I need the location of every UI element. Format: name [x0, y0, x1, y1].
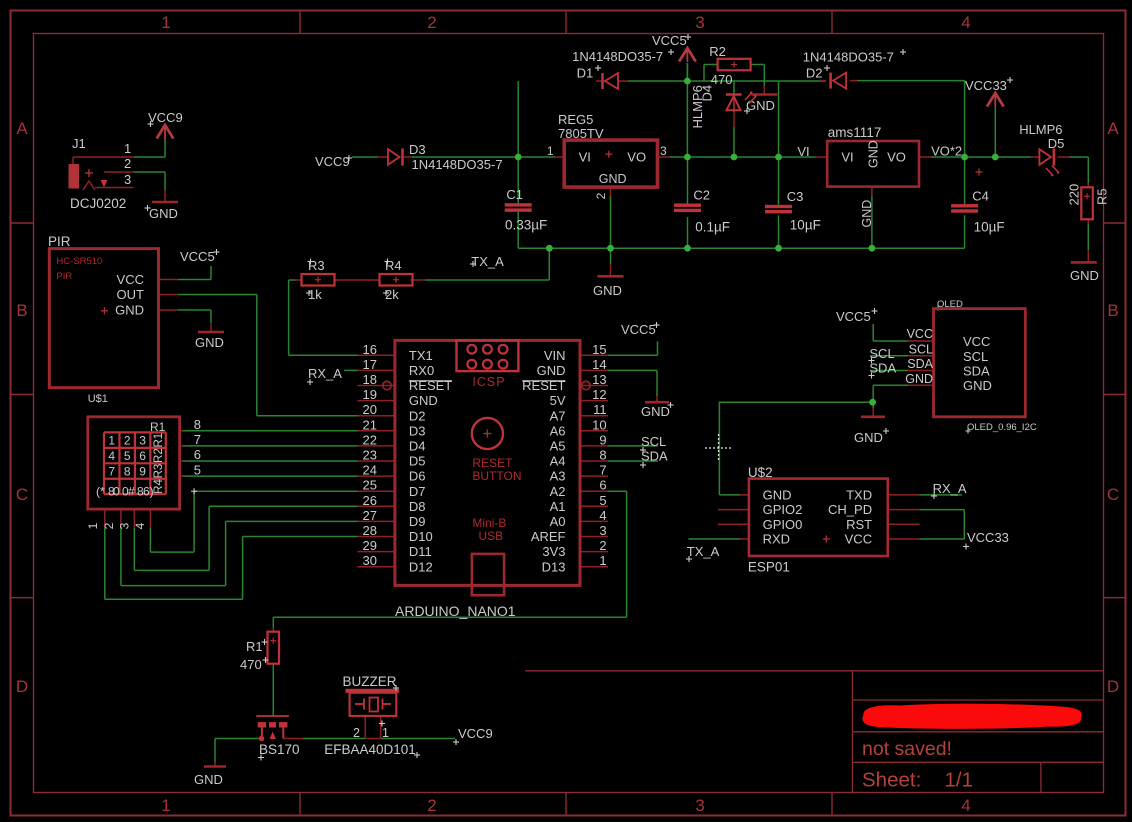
svg-text:RST: RST — [846, 517, 872, 532]
svg-text:TX_A: TX_A — [471, 254, 504, 269]
svg-text:GPIO2: GPIO2 — [763, 502, 803, 517]
svg-text:SCL: SCL — [641, 434, 666, 449]
svg-text:3: 3 — [695, 796, 704, 815]
svg-text:1: 1 — [382, 726, 389, 740]
svg-text:A2: A2 — [550, 484, 566, 499]
svg-text:VIN: VIN — [544, 348, 566, 363]
svg-text:2: 2 — [353, 726, 360, 740]
svg-text:2: 2 — [102, 522, 116, 529]
svg-text:13: 13 — [592, 372, 606, 387]
svg-text:SDA: SDA — [907, 357, 933, 371]
svg-text:R2: R2 — [153, 448, 165, 463]
svg-text:A0: A0 — [550, 514, 566, 529]
svg-text:OUT: OUT — [117, 287, 145, 302]
svg-text:0.1µF: 0.1µF — [695, 220, 730, 235]
svg-text:HC-SR510: HC-SR510 — [56, 256, 102, 267]
svg-text:VCC5: VCC5 — [621, 322, 656, 337]
svg-text:SCL: SCL — [963, 349, 988, 364]
svg-text:GPIO0: GPIO0 — [763, 517, 803, 532]
svg-text:20: 20 — [363, 402, 377, 417]
svg-text:28: 28 — [363, 523, 377, 538]
svg-text:6: 6 — [599, 478, 606, 493]
svg-text:AREF: AREF — [531, 529, 566, 544]
svg-text:USB: USB — [479, 529, 504, 543]
svg-text:BUTTON: BUTTON — [472, 469, 521, 483]
svg-text:C4: C4 — [972, 189, 989, 204]
svg-text:C3: C3 — [787, 189, 804, 204]
svg-text:4: 4 — [961, 13, 970, 32]
svg-text:RXD: RXD — [763, 532, 790, 547]
svg-text:R3: R3 — [153, 464, 165, 479]
svg-text:GND: GND — [763, 488, 792, 503]
svg-text:VCC5: VCC5 — [836, 309, 871, 324]
svg-text:VI: VI — [579, 150, 591, 165]
svg-text:R5: R5 — [1095, 188, 1110, 205]
svg-text:GND: GND — [115, 303, 144, 318]
svg-text:1: 1 — [547, 144, 554, 158]
svg-text:D7: D7 — [409, 484, 426, 499]
svg-text:470: 470 — [711, 72, 733, 87]
svg-text:GND: GND — [194, 772, 223, 787]
svg-text:D12: D12 — [409, 559, 433, 574]
svg-text:5: 5 — [124, 449, 131, 463]
svg-text:TXD: TXD — [846, 488, 872, 503]
svg-text:RX0: RX0 — [409, 363, 434, 378]
svg-text:A3: A3 — [550, 469, 566, 484]
svg-text:(*: (* — [96, 485, 105, 499]
svg-text:Sheet:: Sheet: — [862, 769, 921, 792]
svg-text:C2: C2 — [693, 188, 710, 203]
svg-text:18: 18 — [363, 372, 377, 387]
svg-text:D9: D9 — [409, 514, 426, 529]
svg-text:VO: VO — [887, 150, 906, 165]
svg-text:11: 11 — [593, 402, 607, 417]
svg-text:Mini-B: Mini-B — [472, 516, 506, 530]
svg-text:25: 25 — [363, 478, 377, 493]
svg-text:29: 29 — [363, 538, 377, 553]
svg-text:R2: R2 — [709, 44, 726, 59]
svg-text:4: 4 — [961, 796, 970, 815]
svg-text:BS170: BS170 — [259, 742, 300, 757]
svg-text:6: 6 — [194, 447, 201, 462]
svg-text:D3: D3 — [409, 142, 426, 157]
svg-text:1k: 1k — [308, 287, 322, 302]
svg-text:6: 6 — [139, 449, 146, 463]
svg-text:1: 1 — [108, 434, 115, 448]
svg-text:1N4148DO35-7: 1N4148DO35-7 — [412, 157, 503, 172]
svg-text:30: 30 — [363, 553, 377, 568]
svg-text:24: 24 — [363, 463, 377, 478]
svg-text:D6: D6 — [409, 469, 426, 484]
svg-text:3: 3 — [124, 172, 131, 187]
svg-text:4: 4 — [133, 522, 147, 529]
svg-text:SDA: SDA — [963, 364, 990, 379]
svg-text:GND: GND — [195, 335, 224, 350]
svg-text:3: 3 — [118, 522, 132, 529]
svg-text:D11: D11 — [409, 544, 432, 559]
svg-text:R4: R4 — [153, 479, 165, 494]
svg-text:A1: A1 — [550, 499, 566, 514]
svg-text:GND: GND — [854, 430, 883, 445]
svg-text:1: 1 — [161, 13, 170, 32]
svg-text:1: 1 — [161, 796, 170, 815]
svg-text:A4: A4 — [550, 454, 566, 469]
svg-text:not saved!: not saved! — [862, 738, 952, 760]
svg-text:#: # — [128, 485, 135, 499]
svg-text:GND: GND — [593, 283, 622, 298]
svg-text:23: 23 — [363, 448, 377, 463]
svg-text:2: 2 — [599, 538, 606, 553]
svg-text:GND: GND — [537, 363, 566, 378]
svg-text:RX_A: RX_A — [308, 366, 342, 381]
svg-text:GND: GND — [641, 404, 670, 419]
svg-text:D1: D1 — [577, 66, 594, 81]
svg-text:21: 21 — [363, 417, 377, 432]
svg-text:VI: VI — [841, 150, 853, 165]
svg-text:GND: GND — [409, 393, 438, 408]
svg-text:VO*2: VO*2 — [931, 144, 962, 159]
svg-text:PIR: PIR — [56, 271, 72, 282]
svg-text:1: 1 — [599, 553, 606, 568]
svg-text:R1: R1 — [246, 639, 263, 654]
svg-text:4: 4 — [599, 508, 606, 523]
svg-text:9: 9 — [139, 465, 146, 479]
svg-text:D3: D3 — [409, 423, 426, 438]
svg-text:D13: D13 — [542, 559, 566, 574]
svg-text:2: 2 — [427, 13, 436, 32]
svg-text:470: 470 — [240, 657, 262, 672]
svg-text:D4: D4 — [700, 85, 715, 102]
svg-text:7: 7 — [599, 463, 606, 478]
svg-text:2: 2 — [124, 156, 131, 171]
svg-text:GND: GND — [1070, 268, 1099, 283]
svg-text:R1: R1 — [153, 433, 165, 448]
svg-text:EFBAA40D101: EFBAA40D101 — [324, 742, 416, 757]
svg-text:D5: D5 — [1048, 136, 1065, 151]
svg-text:220: 220 — [1067, 184, 1082, 206]
svg-text:10µF: 10µF — [790, 218, 821, 233]
svg-text:GND: GND — [860, 200, 874, 228]
svg-text:ICSP: ICSP — [472, 375, 505, 389]
svg-text:0: 0 — [113, 485, 120, 499]
svg-text:B: B — [1107, 301, 1118, 320]
svg-text:26: 26 — [363, 493, 377, 508]
svg-text:D: D — [16, 677, 28, 696]
svg-text:A7: A7 — [550, 408, 566, 423]
svg-text:GND: GND — [746, 98, 775, 113]
svg-text:VCC: VCC — [845, 532, 872, 547]
svg-text:CH_PD: CH_PD — [828, 502, 872, 517]
svg-text:ams1117: ams1117 — [828, 125, 882, 140]
svg-text:TX1: TX1 — [409, 348, 433, 363]
svg-text:GND: GND — [963, 378, 992, 393]
svg-text:A: A — [16, 119, 28, 138]
svg-text:8: 8 — [124, 465, 131, 479]
svg-text:D5: D5 — [409, 454, 426, 469]
svg-text:VCC33: VCC33 — [965, 78, 1007, 93]
svg-text:1: 1 — [124, 141, 131, 156]
svg-text:GND: GND — [599, 172, 627, 186]
svg-text:16: 16 — [363, 342, 377, 357]
svg-text:5: 5 — [599, 493, 606, 508]
svg-text:DCJ0202: DCJ0202 — [70, 196, 126, 211]
svg-text:2k: 2k — [385, 287, 399, 302]
svg-text:2: 2 — [427, 796, 436, 815]
svg-text:7: 7 — [194, 432, 201, 447]
svg-text:1/1: 1/1 — [945, 769, 974, 792]
svg-text:VCC: VCC — [907, 327, 933, 341]
svg-text:HLMP6: HLMP6 — [1019, 122, 1062, 137]
svg-text:PIR: PIR — [48, 234, 71, 249]
svg-text:4: 4 — [108, 449, 115, 463]
svg-text:TX_A: TX_A — [687, 544, 720, 559]
svg-text:7: 7 — [108, 465, 115, 479]
svg-text:14: 14 — [592, 357, 606, 372]
svg-text:10µF: 10µF — [974, 220, 1005, 235]
svg-text:5: 5 — [194, 462, 201, 477]
svg-text:1N4148DO35-7: 1N4148DO35-7 — [572, 49, 663, 64]
svg-text:C1: C1 — [506, 187, 523, 202]
svg-text:A5: A5 — [550, 439, 566, 454]
svg-text:SCL: SCL — [869, 346, 894, 361]
svg-text:J1: J1 — [72, 136, 86, 151]
svg-text:12: 12 — [592, 387, 606, 402]
svg-text:GND: GND — [149, 206, 178, 221]
svg-text:RESET: RESET — [472, 456, 513, 470]
svg-text:1N4148DO35-7: 1N4148DO35-7 — [803, 50, 894, 65]
svg-text:2: 2 — [124, 434, 131, 448]
svg-text:VCC9: VCC9 — [148, 110, 183, 125]
svg-text:VCC: VCC — [963, 334, 990, 349]
svg-text:B: B — [16, 301, 27, 320]
svg-text:2: 2 — [594, 192, 608, 199]
svg-text:VCC: VCC — [117, 272, 144, 287]
svg-text:SDA: SDA — [869, 361, 896, 376]
svg-text:A: A — [1107, 119, 1119, 138]
svg-text:D10: D10 — [409, 529, 433, 544]
svg-text:9: 9 — [599, 432, 606, 447]
svg-text:D2: D2 — [806, 66, 823, 81]
svg-text:VO: VO — [627, 150, 646, 165]
svg-text:VCC33: VCC33 — [967, 530, 1009, 545]
svg-text:ESP01: ESP01 — [748, 560, 790, 575]
svg-text:8: 8 — [194, 417, 201, 432]
svg-text:A6: A6 — [550, 423, 566, 438]
svg-text:GND: GND — [905, 372, 933, 386]
svg-text:BUZZER: BUZZER — [343, 674, 397, 689]
svg-text:SCL: SCL — [909, 343, 933, 357]
svg-text:3V3: 3V3 — [542, 544, 565, 559]
svg-text:OLED_0.96_I2C: OLED_0.96_I2C — [967, 422, 1037, 433]
svg-text:SDA: SDA — [641, 449, 668, 464]
svg-text:D8: D8 — [409, 499, 426, 514]
svg-text:VCC5: VCC5 — [180, 249, 215, 264]
svg-text:C: C — [1107, 485, 1119, 504]
svg-text:3: 3 — [695, 13, 704, 32]
svg-text:3: 3 — [599, 523, 606, 538]
svg-text:C: C — [16, 485, 28, 504]
svg-text:8: 8 — [599, 448, 606, 463]
svg-text:22: 22 — [363, 432, 377, 447]
svg-text:3: 3 — [139, 434, 146, 448]
svg-text:3: 3 — [660, 144, 667, 158]
svg-text:19: 19 — [363, 387, 377, 402]
svg-text:VCC9: VCC9 — [458, 726, 493, 741]
svg-text:D2: D2 — [409, 408, 426, 423]
svg-text:27: 27 — [363, 508, 377, 523]
svg-text:U$1: U$1 — [88, 393, 108, 405]
svg-text:D: D — [1107, 677, 1119, 696]
svg-text:D4: D4 — [409, 439, 426, 454]
svg-text:1: 1 — [86, 522, 100, 529]
svg-text:10: 10 — [592, 417, 606, 432]
svg-text:RX_A: RX_A — [933, 481, 967, 496]
svg-text:17: 17 — [363, 357, 377, 372]
svg-text:5V: 5V — [550, 393, 566, 408]
svg-text:REG5: REG5 — [558, 112, 593, 127]
svg-text:VCC5: VCC5 — [652, 33, 687, 48]
svg-text:VCC9: VCC9 — [315, 154, 350, 169]
svg-text:VI: VI — [797, 144, 809, 159]
svg-text:ARDUINO_NANO1: ARDUINO_NANO1 — [395, 603, 516, 619]
svg-text:R1: R1 — [150, 420, 166, 434]
svg-text:GND: GND — [867, 140, 881, 168]
svg-text:15: 15 — [592, 342, 606, 357]
svg-text:0.33µF: 0.33µF — [505, 218, 547, 233]
